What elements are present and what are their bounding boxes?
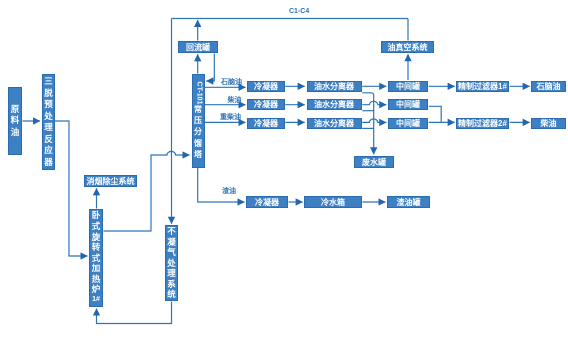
box 中间罐 row1 bbox=[388, 81, 428, 92]
wire 三脱预处理反应器 to 加热炉 bbox=[55, 121, 88, 256]
wire top line down to 不凝气处理系统 bbox=[171, 19, 173, 224]
node label 渣油 bbox=[222, 186, 236, 196]
box 冷凝器 row3 bbox=[247, 118, 285, 129]
wire 油水分离器2 to 中间罐2 (hop over water line) bbox=[362, 101, 386, 104]
wire water stub from 油水分离器2 bbox=[362, 110, 373, 112]
wire top line down to 油真空系统 bbox=[407, 19, 409, 41]
wire 精制过滤器2# to 柴油 bbox=[510, 121, 530, 123]
wire 中间罐1 to 精制过滤器1# bbox=[429, 85, 455, 87]
wire 冷凝器 bottom to 冷水箱 bbox=[289, 201, 303, 203]
box 不凝气处理系统 bbox=[165, 225, 178, 301]
box 渣油罐 bbox=[387, 196, 430, 208]
wire 冷水箱 to 渣油罐 bbox=[363, 201, 386, 203]
box 油水分离器 row1 bbox=[307, 81, 362, 92]
box 消烟除尘系统 bbox=[84, 175, 137, 187]
wire 加热炉 to 消烟除尘系统 bbox=[96, 188, 98, 208]
wire 精制过滤器1# to 石脑油 bbox=[510, 85, 530, 87]
box 原料油 bbox=[8, 87, 22, 155]
wire 分馏塔 top to 回流罐 bbox=[197, 54, 199, 73]
box 石脑油 output bbox=[531, 81, 566, 92]
wire 分馏塔 to 冷凝器3 重柴油 bbox=[205, 121, 246, 123]
wire 分馏塔 to 冷凝器2 柴油 bbox=[205, 104, 246, 106]
wire 中间罐1 up to 油真空系统 bbox=[407, 54, 409, 80]
box 卧式旋转式加热炉1# bbox=[89, 209, 103, 307]
wire 加热炉 to 分馏塔 feed (with hop) bbox=[104, 151, 190, 231]
box 油水分离器 row2 bbox=[307, 99, 362, 110]
wire water stub from 油水分离器3 bbox=[362, 127, 373, 129]
wire 冷凝器2 to 油水分离器2 bbox=[285, 104, 304, 106]
wire 油水分离器1 to 中间罐1 bbox=[362, 85, 386, 87]
box 冷凝器 row1 bbox=[247, 81, 285, 92]
wire 油水分离器3 to 中间罐3 (hop over water line) bbox=[362, 119, 386, 122]
wire 分馏塔 to 冷凝器1 石脑油 bbox=[205, 86, 246, 88]
box 油真空系统 bbox=[381, 41, 434, 53]
wire 不凝气处理系统 to 加热炉 bottom loop bbox=[97, 302, 172, 324]
wire C1-C4 top horizontal line bbox=[172, 18, 409, 20]
wire water from 油水分离器1 down to 废水罐 bbox=[362, 93, 373, 155]
node label 石脑油 bbox=[221, 77, 242, 87]
node label 重柴油 bbox=[220, 112, 241, 122]
box 中间罐 row3 bbox=[388, 118, 428, 129]
box 油水分离器 row3 bbox=[307, 118, 362, 129]
box 冷水箱 bbox=[304, 196, 362, 208]
wire 中间罐2 merge down to row3 bbox=[429, 106, 441, 122]
box 精制过滤器2# bbox=[456, 118, 509, 129]
box 冷凝器 row2 bbox=[247, 99, 285, 110]
box 回流罐 bbox=[178, 41, 218, 53]
wire 中间罐3 to 精制过滤器2# bbox=[429, 121, 455, 123]
wire 回流罐 reflux return to 分馏塔 bbox=[206, 54, 214, 82]
box 冷凝器 bottom bbox=[246, 196, 288, 208]
box 三脱预处理反应器 bbox=[42, 74, 55, 170]
box CT-101常压分馏塔 bbox=[192, 74, 205, 168]
box 废水罐 bbox=[354, 156, 394, 168]
node label C1-C4 bbox=[289, 8, 309, 15]
box 精制过滤器1# bbox=[456, 81, 509, 92]
box 柴油 output bbox=[531, 118, 566, 129]
box 中间罐 row2 bbox=[388, 99, 428, 110]
wire 冷凝器1 to 油水分离器1 bbox=[285, 85, 304, 87]
wire 冷凝器3 to 油水分离器3 bbox=[285, 121, 304, 123]
wire 分馏塔 bottom 渣油 to 冷凝器 bottom bbox=[198, 168, 245, 203]
wire 回流罐 to C1-C4 top line bbox=[197, 20, 199, 41]
wire 原料油 to 三脱预处理反应器 bbox=[23, 120, 41, 122]
node label 柴油 bbox=[228, 95, 242, 105]
